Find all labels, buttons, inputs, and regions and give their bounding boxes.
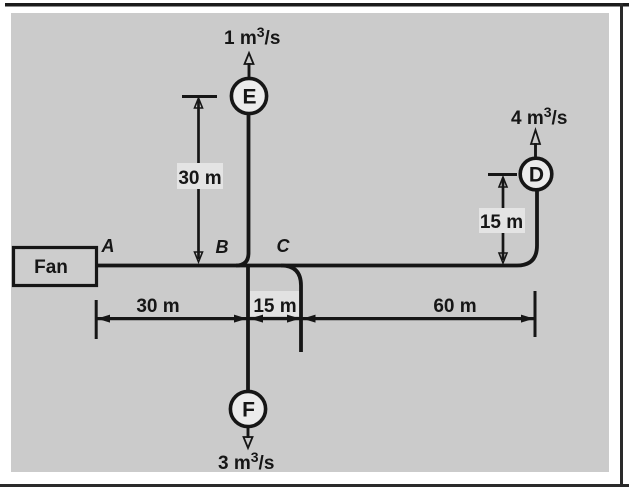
flow arrow at E <box>248 63 251 78</box>
dim horizontal: left tick <box>95 300 98 339</box>
Fan box <box>14 248 97 286</box>
dim 15m vertical: top arrow <box>499 177 507 187</box>
dim 30m vertical: label patch <box>177 163 223 189</box>
svg-text:4 m3/s: 4 m3/s <box>511 104 567 129</box>
svg-text:30 m: 30 m <box>136 296 179 317</box>
wire: branch curve at C down <box>281 266 301 353</box>
label 15 m horizontal patch <box>250 291 302 316</box>
frame right line <box>620 3 623 487</box>
dim horizontal: right tick <box>534 291 537 337</box>
svg-text:Fan: Fan <box>34 257 68 278</box>
flow arrow at D <box>534 143 537 157</box>
dim 30m vertical: top arrow <box>195 98 203 108</box>
frame bottom line <box>0 484 629 487</box>
outlet D circle <box>520 158 552 190</box>
dim 15m vertical: line <box>502 178 505 260</box>
svg-text:A: A <box>101 236 115 256</box>
dim horizontal: arrow right end <box>521 315 534 323</box>
svg-text:60 m: 60 m <box>433 296 476 317</box>
svg-text:15 m: 15 m <box>480 212 523 233</box>
svg-text:30 m: 30 m <box>178 168 221 189</box>
svg-text:15 m: 15 m <box>253 296 296 317</box>
outlet F circle <box>230 391 265 426</box>
dim horizontal: arrows at C riser <box>287 315 300 323</box>
dim horizontal: arrows at B riser <box>234 315 247 323</box>
dim 30m vertical: line <box>197 100 200 259</box>
wire: main duct A to D riser <box>97 191 537 266</box>
outlet E circle <box>231 78 266 113</box>
dim 30m vertical: bottom arrow <box>195 252 203 262</box>
dim horizontal: arrow left end <box>97 315 110 323</box>
svg-text:B: B <box>216 237 229 257</box>
dim 30m vertical: top tick <box>182 95 217 98</box>
dim 15m vertical: top tick <box>488 173 517 176</box>
wire: riser down to F <box>246 266 250 392</box>
svg-text:C: C <box>277 236 291 256</box>
dim horizontal: line <box>97 317 535 320</box>
wire: branch curve at B up to E <box>236 115 249 266</box>
svg-text:D: D <box>529 164 544 187</box>
svg-text:E: E <box>242 86 256 109</box>
svg-text:1 m3/s: 1 m3/s <box>224 24 280 49</box>
dim 15m vertical: bottom arrow <box>499 253 507 263</box>
svg-text:3 m3/s: 3 m3/s <box>218 449 274 474</box>
flow arrow at F <box>247 427 250 438</box>
dim 15m vertical: label patch <box>479 208 525 233</box>
frame top line <box>5 3 629 7</box>
svg-text:F: F <box>242 399 255 422</box>
